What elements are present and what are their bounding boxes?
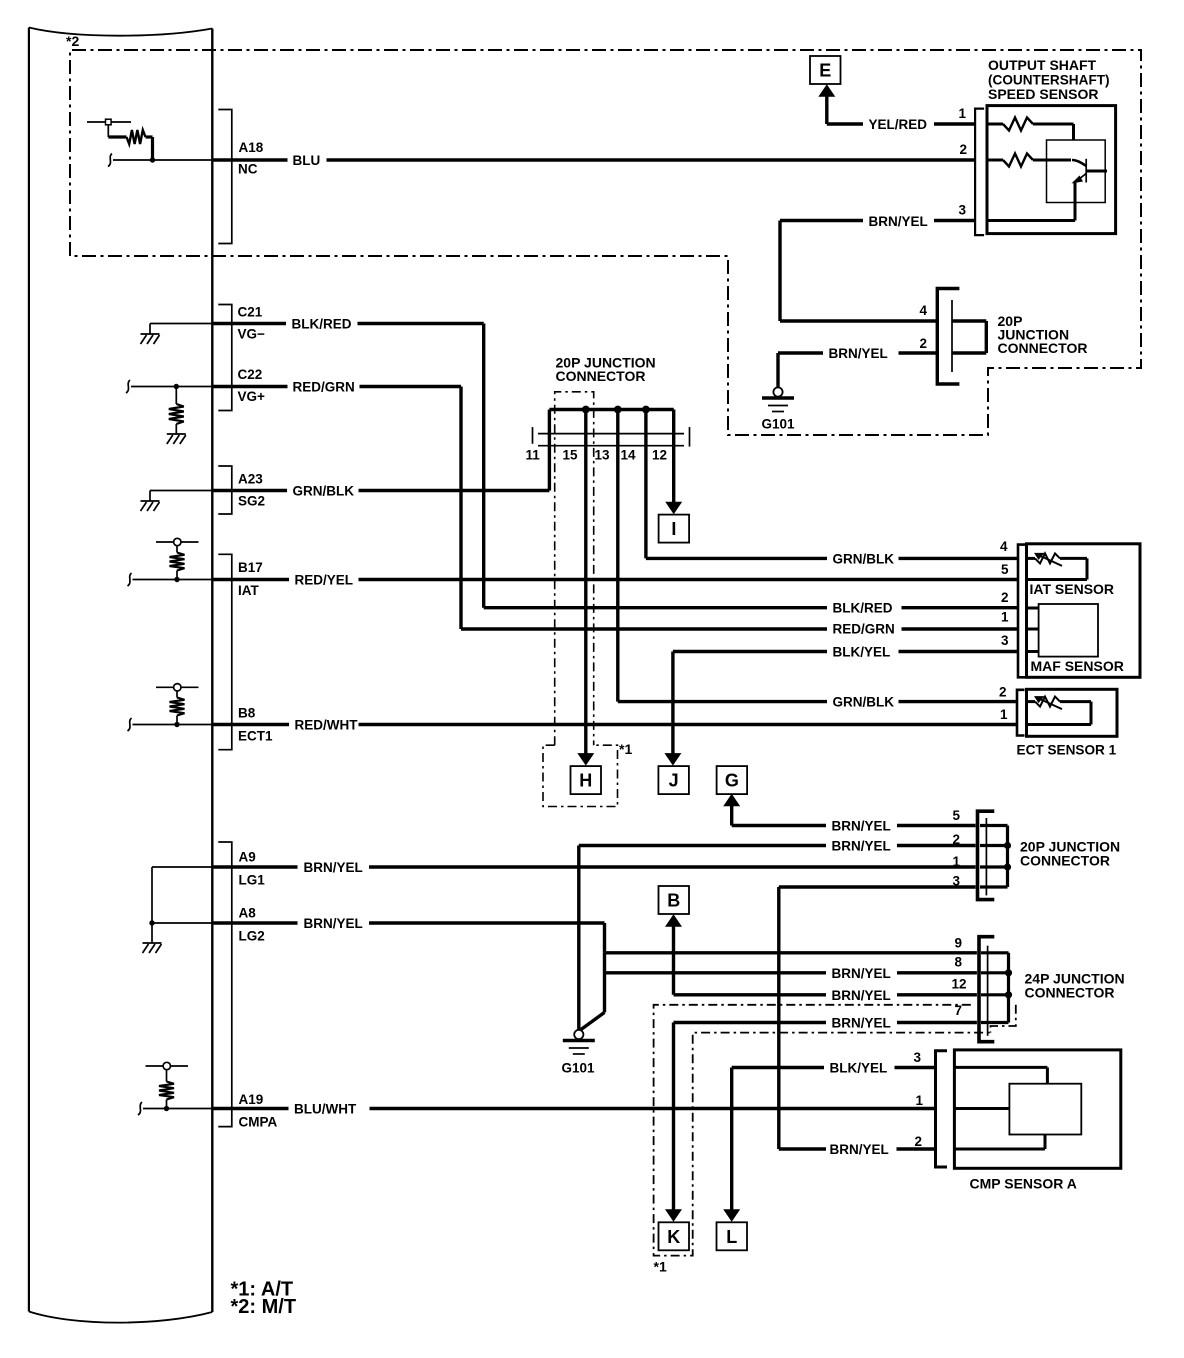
wire BRN/YEL (right segment to 20P top pin 2) <box>899 351 938 354</box>
svg-text:BRN/YEL: BRN/YEL <box>832 988 891 1003</box>
svg-text:1: 1 <box>953 854 961 869</box>
arrow into K box <box>665 1209 682 1222</box>
ECM internal wire A18 <box>113 159 212 161</box>
CMP sensor pin 2 internal wire <box>954 1148 1045 1151</box>
ECM internal wire C22 <box>131 386 212 388</box>
pin 11 wire through connector <box>548 410 551 446</box>
junction dot 20P bus pin2 <box>1004 842 1011 849</box>
svg-text:3: 3 <box>1001 633 1009 648</box>
20P junction connector (lower) internal bus <box>1006 826 1009 888</box>
connector bracket B17/B8 <box>218 554 232 749</box>
20P junction (middle) bus bar <box>549 408 673 411</box>
svg-text:14: 14 <box>621 448 637 463</box>
IAT sensor loop <box>1086 558 1089 579</box>
svg-text:*1: *1 <box>654 1259 667 1275</box>
wire BRN/YEL 20P pin 2 branch (corner + down to G101) <box>577 846 580 1030</box>
CMP sensor inner electronics box <box>1009 1084 1081 1135</box>
speed sensor body box <box>987 106 1116 234</box>
arrow into G box <box>723 794 740 807</box>
wire BLK/YEL to MAF pin 3 (right segment) <box>899 650 1019 653</box>
wire to 24P junction pin 8 (left segment) <box>605 971 827 974</box>
pin 14 wire through connector <box>644 410 647 446</box>
ground lead diagonal to G101 <box>581 1012 605 1029</box>
svg-text:BLK/YEL: BLK/YEL <box>830 1061 888 1076</box>
ECM internal wire C21 to ground <box>150 323 212 325</box>
CMP sensor pin 1 internal wire <box>954 1107 1009 1110</box>
wire BLU/WHT A19 to CMP pin 1 <box>370 1107 936 1110</box>
svg-text:OUTPUT SHAFT: OUTPUT SHAFT <box>988 57 1097 73</box>
wire transistor emitter to pin 3 <box>1074 181 1077 221</box>
connector box B <box>659 886 690 914</box>
svg-text:GRN/BLK: GRN/BLK <box>833 695 895 710</box>
svg-text:2: 2 <box>953 832 961 847</box>
svg-text:13: 13 <box>595 448 611 463</box>
dash-dot enclosure *1 (A/T, around pin 7 wire and K) <box>654 1005 991 1256</box>
ECT sensor body box <box>1027 689 1118 736</box>
svg-text:BRN/YEL: BRN/YEL <box>869 214 928 229</box>
junction dot 24P bus pin12 <box>1005 991 1012 998</box>
ECM internal: reference rail B8 <box>176 691 178 698</box>
wire BRN/YEL to 20P junction (top) pin 4 <box>780 319 937 322</box>
svg-text:C22: C22 <box>238 367 263 382</box>
wire pin 13 down <box>616 446 619 702</box>
wire stub to G101 (top) <box>776 353 779 387</box>
svg-text:SG2: SG2 <box>238 494 265 509</box>
connector box E <box>810 56 841 84</box>
svg-text:BRN/YEL: BRN/YEL <box>832 839 891 854</box>
wire to 20P junction pin 3 <box>779 885 976 888</box>
svg-text:L: L <box>726 1227 737 1247</box>
ECM internal wire A9 <box>152 866 212 868</box>
ECT sensor loop <box>1090 702 1093 725</box>
CMP sensor pin 3 internal wire <box>954 1066 1047 1069</box>
svg-text:CONNECTOR: CONNECTOR <box>998 340 1088 356</box>
wire to 20P junction pin 5 (left segment) <box>730 806 733 826</box>
wire BRN/YEL from B box to 24P pin 12 <box>672 926 675 995</box>
svg-text:ECT SENSOR 1: ECT SENSOR 1 <box>1017 743 1117 758</box>
24P junction connector internal bus <box>1007 953 1010 1023</box>
dashed enclosure *1 (around H box) <box>543 745 618 806</box>
svg-text:VG+: VG+ <box>238 389 266 404</box>
connector box J <box>658 766 689 794</box>
connector box I <box>659 515 690 543</box>
svg-text:3: 3 <box>953 874 961 889</box>
wire RED/GRN to MAF pin 1 (right segment) <box>902 627 1019 630</box>
resistor (ECM internal, A18 circuit) <box>108 135 126 138</box>
svg-text:G101: G101 <box>762 417 796 432</box>
thermistor (ECT sensor 1) <box>1027 700 1036 703</box>
wire RED/GRN to MAF pin 1 (left segment) <box>461 627 827 630</box>
wire GRN/BLK to IAT pin 4 (left segment) <box>646 557 827 560</box>
CMP sensor connector bracket <box>936 1051 948 1167</box>
svg-text:4: 4 <box>920 303 928 318</box>
speed sensor inner electronics box <box>1047 140 1106 203</box>
svg-text:*2: M/T: *2: M/T <box>231 1296 297 1318</box>
svg-text:IAT SENSOR: IAT SENSOR <box>1030 581 1115 597</box>
ECM internal: lead from square <box>107 125 109 137</box>
ECM internal wire A8 <box>152 922 212 924</box>
wire BRN/YEL 24P pin 7 (left segment + K drop) <box>674 1021 827 1024</box>
wire GRN/BLK to ECT pin 2 (left segment) <box>618 700 827 703</box>
resistor (ECM internal, C22 pull-down) <box>175 387 177 405</box>
svg-text:NC: NC <box>238 162 258 177</box>
junction dot A8 node <box>149 920 154 925</box>
svg-text:CONNECTOR: CONNECTOR <box>1025 985 1115 1001</box>
connector bracket A23 <box>218 466 232 514</box>
wire pin 12 down to I box <box>672 446 675 503</box>
wire BRN/YEL to speed sensor pin 3 <box>934 219 975 222</box>
svg-text:B: B <box>667 891 680 911</box>
resistor (speed sensor pin 2) <box>987 159 1003 162</box>
svg-text:K: K <box>667 1227 680 1247</box>
junction dot bus pin14 <box>642 406 650 414</box>
connector bracket A18 <box>218 110 232 244</box>
svg-text:2: 2 <box>1001 590 1009 605</box>
resistor (ECM internal, B8 pull-up) <box>176 716 178 725</box>
speed sensor connector bracket <box>975 109 984 236</box>
svg-text:BRN/YEL: BRN/YEL <box>830 1142 889 1157</box>
pin 15 wire through connector <box>584 410 587 446</box>
ECM internal: reference rail B17 <box>176 546 178 553</box>
svg-text:2: 2 <box>915 1134 923 1149</box>
svg-text:2: 2 <box>999 685 1007 700</box>
IAT/MAF sensor body box <box>1027 544 1141 678</box>
svg-text:BRN/YEL: BRN/YEL <box>832 819 891 834</box>
arrow into J box <box>664 753 681 766</box>
wire to 24P junction pin 7 (right segment) <box>897 1021 977 1024</box>
svg-text:VG−: VG− <box>238 327 266 342</box>
MAF pin stubs <box>1027 607 1039 610</box>
svg-text:YEL/RED: YEL/RED <box>869 117 928 132</box>
svg-text:B17: B17 <box>238 560 263 575</box>
pin 13 wire through connector <box>616 410 619 446</box>
arrow into E box <box>818 84 835 97</box>
wire BRN/YEL A9 to 20P junction pin 1 <box>369 865 976 868</box>
svg-text:RED/GRN: RED/GRN <box>833 622 895 637</box>
svg-text:B8: B8 <box>238 706 256 721</box>
wire BRN/YEL speed sensor pin 3 (corner left) <box>780 219 863 222</box>
svg-text:BRN/YEL: BRN/YEL <box>829 346 888 361</box>
svg-text:H: H <box>579 771 592 791</box>
svg-text:LG1: LG1 <box>239 873 266 888</box>
junction dot A19 node <box>164 1106 169 1111</box>
wire BRN/YEL to CMP pin 2 (left segment) <box>779 1147 826 1150</box>
24P junction connector bracket <box>979 937 994 1042</box>
wire into sensor electronics (pin 1) <box>1072 124 1075 140</box>
svg-text:1: 1 <box>959 106 967 121</box>
transistor Q (speed sensor output) <box>1072 160 1086 166</box>
wire GRN/BLK to ECT pin 2 (right segment) <box>899 700 1018 703</box>
svg-text:1: 1 <box>1000 707 1008 722</box>
svg-text:E: E <box>819 61 831 81</box>
20P junction connector (lower) bracket <box>978 811 995 899</box>
chassis ground (LG1/LG2) <box>151 923 153 943</box>
20P junction connector (top) internal link <box>952 319 986 322</box>
dash-dot enclosure *1 (A/T, around pin 15 wire) <box>555 392 594 745</box>
svg-text:9: 9 <box>955 936 963 951</box>
connector bracket A9/A8/A19 <box>218 842 232 1127</box>
connector box H <box>571 766 602 794</box>
svg-text:*2: *2 <box>66 33 79 49</box>
wire BRN/YEL to CMP pin 2 (right segment) <box>897 1147 936 1150</box>
svg-text:11: 11 <box>526 448 541 463</box>
wire BLK/YEL to CMP pin 3 (left segment + L drop) <box>730 1068 733 1211</box>
wire BRN/YEL long vertical (pin3 to CMP pin 2) <box>777 887 780 1149</box>
svg-text:*1: *1 <box>619 741 632 757</box>
wire GRN/BLK to IAT pin 4 (right segment) <box>899 557 1019 560</box>
svg-text:5: 5 <box>953 808 961 823</box>
continuation hook A19 <box>138 1102 142 1115</box>
wire BLU A18 (to speed sensor pin 2) <box>327 158 976 161</box>
ECM internal: square terminal A18 <box>106 119 112 125</box>
wire BRN/YEL A8 (right segment + jog down) <box>369 921 605 924</box>
chassis ground (C22) <box>175 424 177 434</box>
continuation hook C22 <box>126 380 130 393</box>
svg-text:CMP SENSOR A: CMP SENSOR A <box>970 1176 1077 1192</box>
pin 12 wire through connector <box>672 410 675 446</box>
ECM internal: reference rail A19 <box>166 1071 168 1082</box>
ECT sensor connector bracket <box>1017 690 1025 736</box>
junction dot bus pin13 <box>614 406 622 414</box>
svg-text:RED/GRN: RED/GRN <box>293 380 355 395</box>
wire RED/GRN C22 (right segment + down) <box>360 385 462 388</box>
wire BLK/YEL to CMP pin 3 (right segment) <box>895 1066 936 1069</box>
ECM internal wire B17 <box>133 579 213 581</box>
chassis ground (C21 VG-) <box>149 324 151 335</box>
wire to 24P junction pin 9 <box>605 951 977 954</box>
svg-text:2: 2 <box>920 336 928 351</box>
connector box L <box>717 1222 748 1250</box>
wire to 24P junction pin 8 (right segment) <box>897 971 977 974</box>
svg-text:12: 12 <box>652 448 667 463</box>
wire pin 14 down <box>644 446 647 559</box>
junction dot A18 node <box>150 157 155 162</box>
svg-text:BRN/YEL: BRN/YEL <box>304 860 363 875</box>
arrow into L box <box>723 1209 740 1222</box>
ECM internal wire A19 <box>143 1108 212 1110</box>
wire RED/WHT B8 (left segment) <box>212 723 289 726</box>
svg-text:CMPA: CMPA <box>239 1115 278 1130</box>
svg-text:A23: A23 <box>238 472 263 487</box>
wire YEL/RED to speed sensor pin 1 <box>934 122 975 125</box>
svg-text:BRN/YEL: BRN/YEL <box>832 966 891 981</box>
svg-text:BLK/RED: BLK/RED <box>292 317 352 332</box>
svg-text:C21: C21 <box>238 305 263 320</box>
svg-text:CONNECTOR: CONNECTOR <box>1020 853 1110 869</box>
svg-text:2: 2 <box>960 142 968 157</box>
wire YEL/RED (corner from E) <box>825 96 828 124</box>
svg-text:LG2: LG2 <box>239 929 265 944</box>
svg-text:MAF SENSOR: MAF SENSOR <box>1031 658 1124 674</box>
chassis ground (A23 SG2) <box>149 491 151 502</box>
ECM internal: lead down to node <box>151 137 154 160</box>
svg-text:J: J <box>669 771 679 791</box>
wire BLU A18 (left segment) <box>212 158 287 161</box>
wire to 20P junction pin 5 (right segment) <box>897 824 976 827</box>
svg-text:RED/WHT: RED/WHT <box>295 718 359 733</box>
dash-dot enclosure *2 M/T region <box>70 50 1141 435</box>
svg-text:A8: A8 <box>239 906 257 921</box>
svg-text:A9: A9 <box>239 850 256 865</box>
wire BLK/RED C21 (left segment) <box>212 322 286 325</box>
CMP sensor body box <box>954 1050 1120 1168</box>
resistor (speed sensor pin 1) <box>987 123 1003 126</box>
svg-text:BLK/YEL: BLK/YEL <box>833 645 891 660</box>
junction dot C22 node <box>174 384 179 389</box>
continuation hook B17 <box>128 573 132 586</box>
connector box G <box>717 766 748 794</box>
ECM/PCM module body (torn-edge outline) <box>29 28 212 1323</box>
svg-text:I: I <box>671 519 676 539</box>
svg-text:12: 12 <box>952 977 967 992</box>
svg-text:GRN/BLK: GRN/BLK <box>833 551 895 566</box>
svg-text:1: 1 <box>916 1093 924 1108</box>
junction dot 20P bus pin1 <box>1004 863 1011 870</box>
junction dot bus pin15 <box>582 406 590 414</box>
svg-text:ECT1: ECT1 <box>238 729 273 744</box>
svg-text:A18: A18 <box>239 140 264 155</box>
wire GRN/BLK A23 up to junction connector pin 11 <box>548 446 551 491</box>
wire GRN/BLK A23 (right segment) <box>359 489 550 492</box>
svg-text:CONNECTOR: CONNECTOR <box>556 368 646 384</box>
junction dot B8 node <box>174 722 179 727</box>
svg-text:G: G <box>725 771 739 791</box>
resistor (ECM internal, B17 pull-up) <box>176 571 178 580</box>
wire BLK/RED C21 (right segment + down) <box>358 322 484 325</box>
ground G101 (lower) <box>574 1030 583 1039</box>
wire to 20P junction pin 2 (left segment) <box>579 844 826 847</box>
continuation hook B8 <box>128 718 132 731</box>
arrow into H box <box>577 753 594 766</box>
svg-text:A19: A19 <box>239 1092 264 1107</box>
resistor (ECM internal, A19 pull-up) <box>166 1100 168 1109</box>
junction dot 24P bus pin8 <box>1005 969 1012 976</box>
wire RED/WHT B8 to ECT pin 1 <box>359 723 1018 726</box>
svg-text:15: 15 <box>563 448 579 463</box>
svg-text:8: 8 <box>955 955 963 970</box>
svg-text:GRN/BLK: GRN/BLK <box>293 484 355 499</box>
svg-text:3: 3 <box>914 1050 922 1065</box>
wire BRN/YEL A9 (left segment) <box>212 865 297 868</box>
connector box K <box>659 1222 690 1250</box>
ECM internal wire B8 <box>133 724 213 726</box>
wire RED/GRN C22 (left segment) <box>212 385 287 388</box>
thermistor (IAT sensor) <box>1027 557 1036 560</box>
IAT/MAF sensor connector bracket <box>1018 545 1026 678</box>
wire BLU/WHT A19 (left segment) <box>212 1107 288 1110</box>
20P junction connector (top) bracket <box>937 289 959 385</box>
svg-text:3: 3 <box>959 203 967 218</box>
svg-text:SPEED SENSOR: SPEED SENSOR <box>988 86 1098 102</box>
ground G101 (top) <box>773 387 782 396</box>
svg-text:G101: G101 <box>562 1061 596 1076</box>
wire GRN/BLK A23 (left segment) <box>212 489 287 492</box>
wire BRN/YEL A8 (left segment) <box>212 921 297 924</box>
wire RED/YEL B17 to IAT pin 5 <box>359 578 1019 581</box>
arrow into B box <box>665 914 682 927</box>
MAF sensor inner box <box>1039 604 1098 657</box>
svg-text:BLK/RED: BLK/RED <box>833 601 893 616</box>
wire to 24P junction pin 12 (right segment) <box>897 993 977 996</box>
connector bracket C21/C22 <box>218 305 232 411</box>
wire pin 15 down to H box <box>584 446 587 754</box>
svg-text:BRN/YEL: BRN/YEL <box>832 1016 891 1031</box>
wire RED/YEL B17 (left segment) <box>212 578 289 581</box>
wire BLK/YEL from J box (corner) <box>671 652 674 754</box>
svg-text:IAT: IAT <box>238 583 259 598</box>
ECM internal wire A23 to ground <box>150 490 212 492</box>
svg-text:1: 1 <box>1001 610 1009 625</box>
svg-text:BLU: BLU <box>293 153 321 168</box>
svg-text:5: 5 <box>1001 562 1009 577</box>
20P junction (middle) housing strip <box>538 433 684 435</box>
wire BLK/RED to MAF pin 2 (right segment) <box>902 606 1019 609</box>
wire to 20P junction pin 2 (right segment) <box>897 844 976 847</box>
svg-text:BLU/WHT: BLU/WHT <box>294 1102 357 1117</box>
junction dot B17 node <box>174 577 179 582</box>
wire stub down to G101 diagonal <box>603 953 606 1013</box>
arrow into I box <box>665 502 682 515</box>
continuation hook A18 <box>108 154 112 167</box>
svg-text:RED/YEL: RED/YEL <box>295 573 354 588</box>
wire BRN/YEL to 20P junction (top) pin 2 <box>778 351 823 354</box>
wire BLK/RED to MAF pin 2 (left segment) <box>484 606 827 609</box>
ECM internal: terminal line A18 <box>87 121 131 123</box>
svg-text:4: 4 <box>1000 539 1008 554</box>
ECM internal: A9-A8 ground link <box>151 867 153 923</box>
svg-text:BRN/YEL: BRN/YEL <box>304 916 363 931</box>
